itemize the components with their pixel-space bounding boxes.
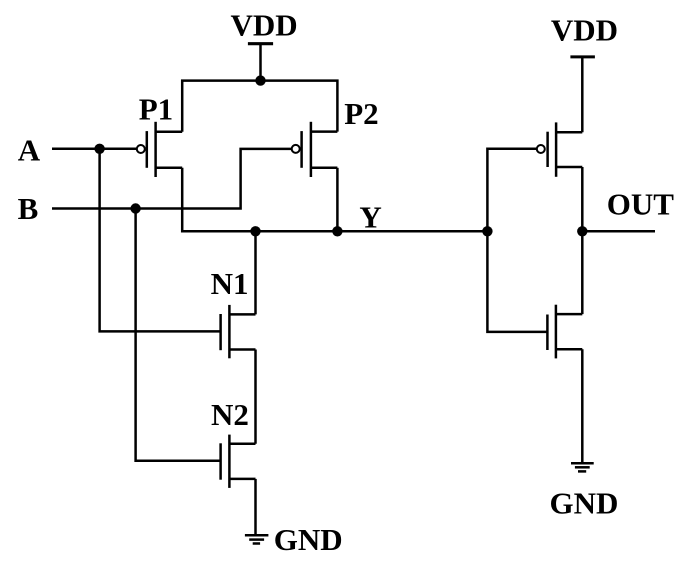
svg-text:VDD: VDD: [551, 13, 618, 48]
svg-text:B: B: [18, 191, 39, 226]
junction node Y / N1 drain: [250, 226, 260, 236]
svg-text:P1: P1: [139, 92, 173, 127]
junction node B: [130, 203, 140, 213]
svg-text:N2: N2: [211, 397, 249, 432]
junction node A: [94, 144, 104, 154]
wire N2 source to ground: [254, 479, 257, 534]
junction node Y / P2 drain: [332, 226, 342, 236]
transistor N2 (NMOS): [221, 435, 256, 488]
junction node OUT: [577, 226, 587, 236]
wire input A to P1 gate: [52, 148, 137, 151]
wire VDD rail to P1 and P2 sources: [182, 81, 337, 132]
svg-text:VDD: VDD: [231, 8, 298, 43]
transistor N1 (NMOS): [221, 305, 256, 358]
wire P2 drain down to node Y: [336, 168, 339, 232]
wire node Y from P1 drain to inverter input: [182, 168, 487, 232]
wire node Y down to N1 drain: [254, 231, 257, 314]
wire OUT: [582, 230, 655, 233]
wire node A down to N1 gate: [100, 149, 221, 332]
svg-text:Y: Y: [359, 200, 381, 235]
power symbol VDD (inverter): [570, 57, 595, 132]
power symbol VDD (NAND stage): [248, 44, 273, 81]
wire node B down to N2 gate: [136, 209, 221, 461]
svg-text:GND: GND: [550, 486, 619, 521]
transistor PMOS (inverter pull-up): [537, 122, 583, 176]
transistor P1 (PMOS): [137, 122, 182, 177]
ground symbol (inverter): [571, 463, 594, 471]
svg-text:P2: P2: [344, 96, 378, 131]
transistor P2 (PMOS): [292, 122, 338, 177]
wire N1 source to N2 drain: [254, 350, 257, 444]
wire input B and riser to P2 gate: [52, 149, 291, 209]
wire inverter input: PMOS gate lead, riser, NMOS gate lead: [487, 149, 547, 332]
ground symbol (NAND stage): [245, 535, 269, 543]
svg-text:OUT: OUT: [607, 186, 675, 221]
junction VDD rail / supply stub: [255, 75, 265, 85]
svg-text:A: A: [18, 133, 41, 168]
junction node Y / inverter input: [482, 226, 492, 236]
wire NMOS source to ground: [581, 349, 584, 462]
svg-text:N1: N1: [211, 266, 249, 301]
wire PMOS drain to NMOS drain (output column): [581, 167, 584, 314]
transistor NMOS (inverter pull-down): [547, 305, 582, 359]
svg-text:GND: GND: [274, 522, 343, 557]
